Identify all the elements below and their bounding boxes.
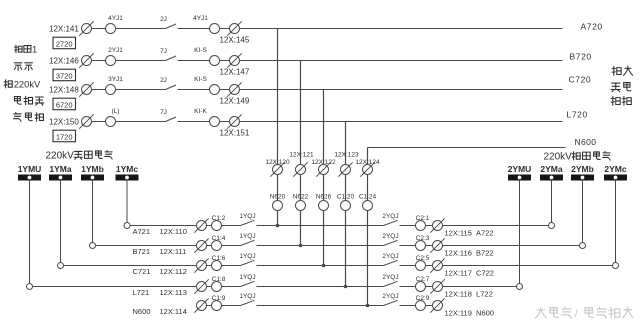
svg-text:2J: 2J xyxy=(160,77,167,84)
svg-text:1YMU: 1YMU xyxy=(18,164,42,174)
svg-text:12X:151: 12X:151 xyxy=(220,129,250,138)
svg-text:12X:117 C722: 12X:117 C722 xyxy=(445,269,494,278)
svg-text:C2:1: C2:1 xyxy=(416,215,430,222)
svg-text:KI-S: KI-S xyxy=(194,76,207,83)
svg-text:C1:6: C1:6 xyxy=(212,255,226,262)
svg-text:2J: 2J xyxy=(160,16,167,23)
svg-text:12X:110: 12X:110 xyxy=(160,227,187,236)
svg-text:N620: N620 xyxy=(270,194,286,201)
svg-text:2YQJ: 2YQJ xyxy=(382,274,398,281)
svg-text:B720: B720 xyxy=(570,52,592,62)
svg-text:12X:115 A722: 12X:115 A722 xyxy=(445,229,494,238)
svg-text:1: 1 xyxy=(32,45,37,55)
svg-text:2YJ1: 2YJ1 xyxy=(108,47,123,54)
svg-text:B721: B721 xyxy=(133,247,151,256)
svg-text:12X:118 L722: 12X:118 L722 xyxy=(445,290,493,299)
svg-text:2YQJ: 2YQJ xyxy=(382,293,398,300)
svg-text:L721: L721 xyxy=(133,288,150,297)
svg-text:C721: C721 xyxy=(133,267,151,276)
svg-text:2YQJ: 2YQJ xyxy=(382,253,398,260)
svg-text:1720: 1720 xyxy=(56,132,73,141)
svg-text:12X:146: 12X:146 xyxy=(49,56,79,65)
svg-text:C2:5: C2:5 xyxy=(416,255,430,262)
svg-text:4YJ1: 4YJ1 xyxy=(108,15,123,22)
svg-text:12X:123: 12X:123 xyxy=(334,152,359,159)
svg-text:C1:8: C1:8 xyxy=(212,276,226,283)
svg-text:(L): (L) xyxy=(112,108,120,115)
svg-text:2YMa: 2YMa xyxy=(540,164,562,174)
svg-text:1YQJ: 1YQJ xyxy=(239,213,255,220)
svg-text:12X:112: 12X:112 xyxy=(160,267,187,276)
svg-text:C1:20: C1:20 xyxy=(337,194,355,201)
svg-text:220kV: 220kV xyxy=(544,152,573,163)
svg-text:C1:9: C1:9 xyxy=(212,295,226,302)
svg-text:12X:147: 12X:147 xyxy=(220,68,250,77)
svg-text:220kV: 220kV xyxy=(14,78,41,89)
svg-text:6720: 6720 xyxy=(56,100,73,109)
svg-text:N626: N626 xyxy=(316,194,332,201)
svg-text:12X:116 B722: 12X:116 B722 xyxy=(445,249,494,258)
svg-text:12X:121: 12X:121 xyxy=(289,152,314,159)
svg-text:2YMc: 2YMc xyxy=(604,164,626,174)
svg-text:1YQJ: 1YQJ xyxy=(239,253,255,260)
svg-text:3YJ1: 3YJ1 xyxy=(108,76,123,83)
svg-text:2YQJ: 2YQJ xyxy=(382,213,398,220)
svg-text:1YQJ: 1YQJ xyxy=(239,274,255,281)
svg-text:1YQJ: 1YQJ xyxy=(239,293,255,300)
svg-text:N600: N600 xyxy=(133,307,151,316)
svg-text:220kV: 220kV xyxy=(46,151,75,162)
svg-text:A721: A721 xyxy=(133,227,151,236)
svg-text:N600: N600 xyxy=(575,137,597,147)
svg-text:1YQJ: 1YQJ xyxy=(239,233,255,240)
svg-text:7J: 7J xyxy=(160,109,167,116)
svg-text:12X:114: 12X:114 xyxy=(160,307,187,316)
svg-text:1YMa: 1YMa xyxy=(49,164,71,174)
svg-text:1YMc: 1YMc xyxy=(116,164,138,174)
svg-text:C2:9: C2:9 xyxy=(416,295,430,302)
svg-text:2YQJ: 2YQJ xyxy=(382,233,398,240)
svg-text:2720: 2720 xyxy=(56,39,73,48)
svg-text:C1:4: C1:4 xyxy=(212,235,226,242)
svg-text:KI-K: KI-K xyxy=(194,108,207,115)
svg-text:2YMb: 2YMb xyxy=(571,164,594,174)
svg-text:1YMb: 1YMb xyxy=(81,164,104,174)
svg-text:C2:7: C2:7 xyxy=(416,276,430,283)
svg-text:N622: N622 xyxy=(293,194,309,201)
svg-text:12X:148: 12X:148 xyxy=(49,85,79,94)
svg-text:12X:145: 12X:145 xyxy=(220,36,250,45)
svg-text:12X:113: 12X:113 xyxy=(160,288,187,297)
svg-text:12X:111: 12X:111 xyxy=(160,247,187,256)
svg-text:3720: 3720 xyxy=(56,71,73,80)
svg-text:C720: C720 xyxy=(569,75,592,85)
svg-text:12X:149: 12X:149 xyxy=(220,97,250,106)
svg-text:L720: L720 xyxy=(567,110,588,120)
svg-text:C1:2: C1:2 xyxy=(212,215,226,222)
svg-text:KI-S: KI-S xyxy=(194,47,207,54)
svg-text:C2:3: C2:3 xyxy=(416,235,430,242)
svg-text:12X:141: 12X:141 xyxy=(49,24,79,33)
svg-text:7J: 7J xyxy=(160,48,167,55)
svg-text:A720: A720 xyxy=(581,22,603,32)
svg-text:C1:24: C1:24 xyxy=(359,194,377,201)
svg-text:12X:119 N600: 12X:119 N600 xyxy=(445,309,494,318)
svg-text:12X:150: 12X:150 xyxy=(49,117,79,126)
svg-text:2YMU: 2YMU xyxy=(508,164,532,174)
svg-text:4YJ1: 4YJ1 xyxy=(193,15,208,22)
